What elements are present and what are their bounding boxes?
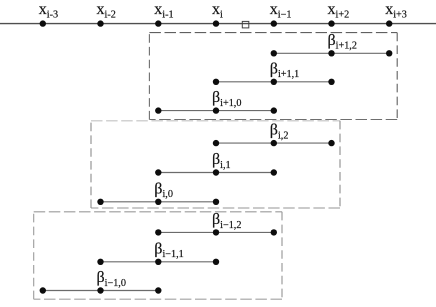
dot right end of beta_i+1,0 segment <box>271 107 277 113</box>
dot left end of beta_i+1,2 segment <box>271 50 277 56</box>
dot right end of beta_i-1,0 segment <box>155 287 161 293</box>
support segment beta_i-1,2 <box>158 231 273 233</box>
dot right end of beta_i+1,2 segment <box>386 50 392 56</box>
knot dot x_i+1 <box>271 20 277 26</box>
support segment beta_i+1,1 <box>216 81 332 83</box>
dot left end of beta_i-1,0 segment <box>40 287 46 293</box>
dot left end of beta_i,1 segment <box>155 169 161 175</box>
dot middle of beta_i-1,0 segment <box>97 287 103 293</box>
dot middle of beta_i,1 segment <box>213 169 219 175</box>
dot right end of beta_i,1 segment <box>271 169 277 175</box>
dot left end of beta_i-1,2 segment <box>155 229 161 235</box>
dot middle of beta_i-1,2 segment <box>213 229 219 235</box>
dot left end of beta_i-1,1 segment <box>97 259 103 265</box>
dot left end of beta_i+1,1 segment <box>213 79 219 85</box>
support segment beta_i+1,0 <box>158 110 273 112</box>
svg-text:xi+2: xi+2 <box>328 1 350 21</box>
dot middle of beta_i+1,0 segment <box>213 107 219 113</box>
axis line (knot line) <box>0 23 436 25</box>
dot middle of beta_i+1,2 segment <box>328 50 334 56</box>
svg-text:βi−1,0: βi−1,0 <box>97 269 126 289</box>
knot dot x_i-2 <box>97 20 103 26</box>
knot dot x_i+2 <box>328 20 334 26</box>
support segment beta_i,1 <box>158 172 273 174</box>
dot middle of beta_i+1,1 segment <box>271 79 277 85</box>
svg-text:βi,2: βi,2 <box>270 122 289 142</box>
dot right end of beta_i+1,1 segment <box>328 79 334 85</box>
support segment beta_i,2 <box>216 142 332 144</box>
svg-text:xi: xi <box>212 1 223 21</box>
svg-text:xi-3: xi-3 <box>39 1 58 21</box>
svg-text:βi+1,2: βi+1,2 <box>328 32 357 52</box>
dot right end of beta_i-1,2 segment <box>271 229 277 235</box>
dot middle of beta_i,0 segment <box>155 199 161 205</box>
dot right end of beta_i,2 segment <box>328 140 334 146</box>
support segment beta_i-1,1 <box>101 261 217 263</box>
svg-text:xi-2: xi-2 <box>97 1 116 21</box>
support segment beta_i+1,2 <box>274 52 389 54</box>
svg-text:βi−1,2: βi−1,2 <box>212 211 241 231</box>
dot right end of beta_i-1,1 segment <box>213 259 219 265</box>
dot left end of beta_i,0 segment <box>97 199 103 205</box>
support box for beta_i+1 (dashed rectangle) <box>149 33 397 120</box>
evaluation point marker (open square) on axis <box>242 21 249 28</box>
svg-text:βi−1,1: βi−1,1 <box>154 240 183 260</box>
dot left end of beta_i,2 segment <box>213 140 219 146</box>
svg-text:xi−1: xi−1 <box>270 1 292 21</box>
svg-text:βi,1: βi,1 <box>212 151 231 171</box>
support box for beta_i-1 (dashed rectangle) <box>34 212 282 299</box>
svg-text:βi+1,0: βi+1,0 <box>212 89 241 109</box>
svg-text:xi-1: xi-1 <box>154 1 173 21</box>
support segment beta_i,0 <box>101 201 217 203</box>
knot dot x_i+3 <box>386 20 392 26</box>
svg-text:βi,0: βi,0 <box>154 180 173 200</box>
support segment beta_i-1,0 <box>43 290 159 292</box>
dot right end of beta_i,0 segment <box>213 199 219 205</box>
dot left end of beta_i+1,0 segment <box>155 107 161 113</box>
dot middle of beta_i,2 segment <box>271 140 277 146</box>
dot middle of beta_i-1,1 segment <box>155 259 161 265</box>
svg-text:xi+3: xi+3 <box>385 1 407 21</box>
knot dot x_i <box>213 20 219 26</box>
support box for beta_i (dashed rectangle) <box>91 121 340 208</box>
knot dot x_i-1 <box>155 20 161 26</box>
knot dot x_i-3 <box>40 20 46 26</box>
svg-text:βi+1,1: βi+1,1 <box>270 60 299 80</box>
